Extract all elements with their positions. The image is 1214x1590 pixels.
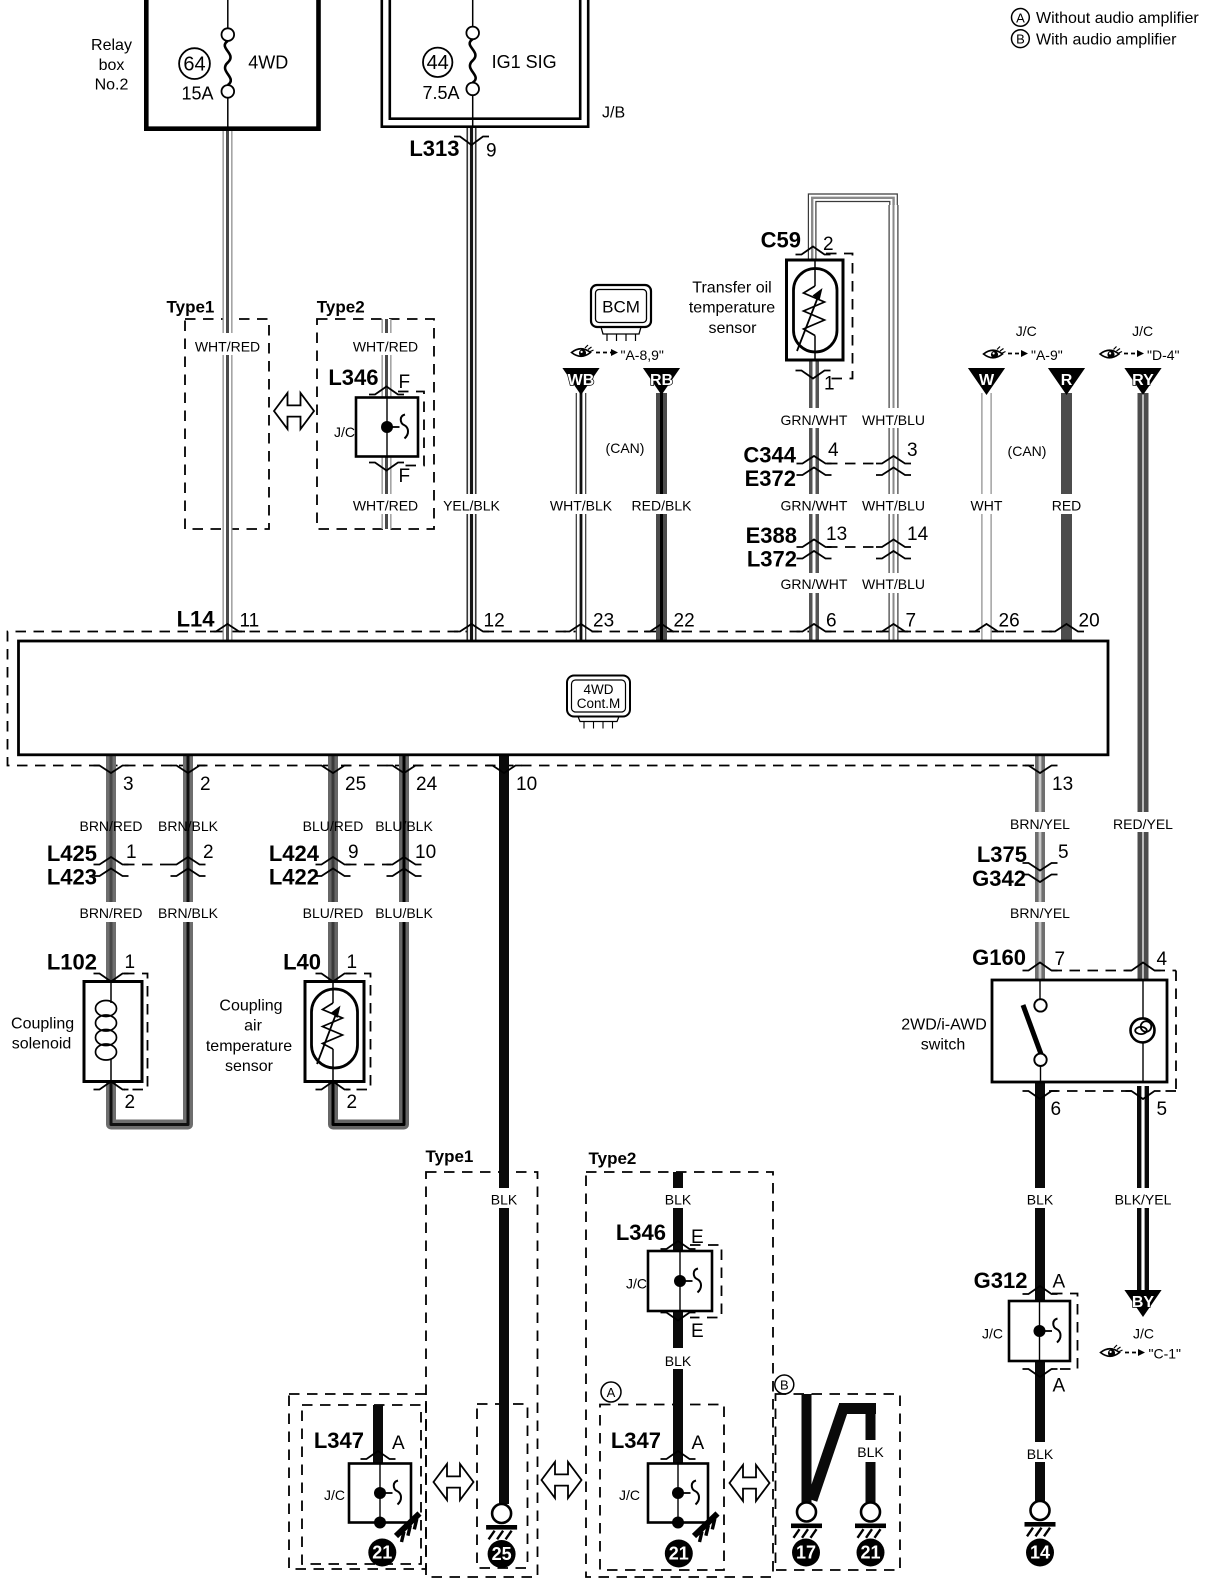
option B circle <box>775 1375 794 1394</box>
connector Type1 option dashed box (WHT/RED) <box>185 319 269 529</box>
module pin 23 <box>564 624 599 632</box>
module pin 12 <box>454 624 489 632</box>
svg-text:L102: L102 <box>47 950 97 975</box>
transfer oil temperature sensor C59 box <box>787 260 844 360</box>
svg-text:2: 2 <box>200 774 211 795</box>
svg-text:(CAN): (CAN) <box>606 440 645 456</box>
svg-text:With audio amplifier: With audio amplifier <box>1036 31 1177 48</box>
svg-text:25: 25 <box>492 1544 512 1564</box>
svg-text:L347: L347 <box>314 1428 364 1453</box>
svg-text:RED: RED <box>1052 498 1082 514</box>
svg-text:4: 4 <box>1157 949 1168 970</box>
L424/L422 chevrons pin 9 <box>316 857 351 865</box>
ground 25 <box>492 1504 511 1523</box>
svg-text:9: 9 <box>348 842 359 863</box>
svg-text:6: 6 <box>1051 1099 1062 1120</box>
svg-text:"D-4": "D-4" <box>1147 347 1180 363</box>
svg-text:solenoid: solenoid <box>12 1036 72 1053</box>
connector R triangle <box>1048 368 1085 395</box>
fuse 64 15A 4WD <box>227 0 229 28</box>
BCM module icon <box>591 285 651 327</box>
svg-text:Type2: Type2 <box>317 298 365 317</box>
connector L347 dashed box (option A) <box>600 1405 724 1571</box>
svg-text:BRN/YEL: BRN/YEL <box>1010 905 1070 921</box>
junction connector L347 (left) <box>349 1464 411 1523</box>
wire WHT/RED stubs in Type2 option <box>382 319 392 529</box>
ground option B dashed box <box>776 1394 901 1570</box>
connector RY triangle <box>1124 368 1161 395</box>
junction connector L346 (E) <box>648 1251 712 1311</box>
L346 pin F top <box>369 387 404 395</box>
svg-text:Transfer oil: Transfer oil <box>692 280 771 297</box>
svg-text:WHT/RED: WHT/RED <box>353 498 418 514</box>
svg-text:20: 20 <box>1079 611 1100 632</box>
svg-text:4WD: 4WD <box>584 682 614 697</box>
svg-text:21: 21 <box>860 1543 880 1563</box>
L40 pin 1 <box>316 974 351 982</box>
svg-text:4: 4 <box>828 440 839 461</box>
svg-text:L313: L313 <box>409 136 459 161</box>
connector C59 dashed boundary <box>826 254 853 379</box>
wire BLK/YEL G160 pin 5 to BY <box>1137 1086 1149 1291</box>
svg-text:No.2: No.2 <box>95 77 129 94</box>
J/C eye reference to A-9 <box>984 350 1003 358</box>
svg-text:J/C: J/C <box>1133 1326 1154 1342</box>
wire RED/BLK from RB to pin 22 <box>656 393 667 641</box>
svg-text:A: A <box>392 1433 405 1454</box>
double arrow A-B <box>730 1465 770 1501</box>
svg-text:23: 23 <box>593 611 614 632</box>
module pin 2 <box>171 766 206 774</box>
svg-text:1: 1 <box>824 374 835 395</box>
junction connector G312 <box>1009 1301 1070 1361</box>
svg-text:C59: C59 <box>761 228 801 253</box>
wire WHT/RED from fuse 64 to pin 11 <box>223 131 233 641</box>
module pin 25 <box>316 766 351 774</box>
wire WHT from W to pin 26 <box>981 393 991 641</box>
svg-text:1: 1 <box>126 842 137 863</box>
svg-text:sensor: sensor <box>225 1058 274 1075</box>
svg-text:BCM: BCM <box>602 298 640 317</box>
svg-text:Coupling: Coupling <box>11 1015 74 1032</box>
svg-text:temperature: temperature <box>689 300 775 317</box>
connector W triangle <box>968 368 1005 395</box>
svg-text:BLK: BLK <box>665 1192 692 1208</box>
module pin 10 <box>487 766 522 774</box>
svg-text:15A: 15A <box>181 84 213 104</box>
L347 ground hatch (left) <box>396 1514 420 1537</box>
ground 17 <box>797 1503 816 1522</box>
L424/L422 chevrons pin 10 <box>387 857 422 865</box>
G160 pin 5 <box>1126 1091 1161 1099</box>
E388/L372 chevrons pin 14 <box>876 540 911 548</box>
module pin 7 <box>876 624 911 632</box>
svg-text:13: 13 <box>826 524 847 545</box>
svg-text:A: A <box>692 1433 705 1454</box>
svg-text:13: 13 <box>1052 774 1073 795</box>
svg-text:E: E <box>691 1227 704 1248</box>
wire BLU/BLK pin 24 to L40 return <box>399 756 409 1120</box>
svg-text:L422: L422 <box>269 865 319 890</box>
svg-text:temperature: temperature <box>206 1038 292 1055</box>
fuse 44 7.5A IG1 SIG <box>472 0 474 27</box>
wire WHT/BLU loop from C59 pin 2 <box>808 194 897 259</box>
svg-text:L423: L423 <box>47 865 97 890</box>
module pin 3 <box>94 766 129 774</box>
connector G160 dashed boundary <box>1052 970 1132 972</box>
module pin 22 <box>644 624 679 632</box>
4WD Cont.M icon <box>567 676 630 717</box>
C59 pin 1 <box>796 371 831 379</box>
option A circle <box>601 1382 621 1402</box>
svg-text:L347: L347 <box>611 1428 661 1453</box>
svg-text:J/C: J/C <box>1016 323 1037 339</box>
junction connector L346 (E) dashed boundary <box>690 1245 722 1318</box>
svg-text:RED/YEL: RED/YEL <box>1113 816 1173 832</box>
svg-text:3: 3 <box>907 440 918 461</box>
svg-text:7.5A: 7.5A <box>422 83 459 103</box>
svg-text:G342: G342 <box>972 866 1026 891</box>
svg-text:L346: L346 <box>328 365 378 390</box>
C59 pin 2 <box>796 247 831 255</box>
svg-text:switch: switch <box>921 1037 965 1054</box>
svg-text:64: 64 <box>183 54 205 76</box>
connector WB triangle <box>562 368 599 395</box>
svg-text:Type1: Type1 <box>167 298 215 317</box>
svg-text:1: 1 <box>125 952 136 973</box>
svg-text:BLU/BLK: BLU/BLK <box>375 818 433 834</box>
junction block J/B outline <box>382 0 588 127</box>
wire WHT/BLU column to pin 7 <box>889 205 899 641</box>
double arrow between Type1 and Type2 <box>274 393 314 429</box>
ground 17 badge <box>792 1539 820 1567</box>
svg-text:L40: L40 <box>283 950 321 975</box>
wire BRN/RED pin 3 to L102 <box>106 756 116 982</box>
L425/L423 pin link dashed line <box>124 864 175 866</box>
svg-text:E372: E372 <box>745 466 796 491</box>
svg-text:L375: L375 <box>977 842 1027 867</box>
svg-text:14: 14 <box>907 524 929 545</box>
L346 pin E top <box>661 1241 696 1249</box>
svg-text:J/B: J/B <box>602 105 625 122</box>
ground 21 (option B) <box>861 1503 880 1522</box>
connector Type2 option dashed box (L346) <box>317 319 434 529</box>
ground 25 badge <box>488 1540 516 1568</box>
svg-text:BLU/BLK: BLU/BLK <box>375 905 433 921</box>
ground 14 badge <box>1026 1539 1054 1567</box>
relay box No.2 outline <box>146 0 318 129</box>
svg-text:WHT/BLU: WHT/BLU <box>862 576 925 592</box>
svg-text:L14: L14 <box>177 607 216 632</box>
legend B with audio amplifier <box>1012 30 1030 48</box>
svg-text:22: 22 <box>674 611 695 632</box>
connector BY triangle <box>1124 1290 1161 1317</box>
svg-text:7: 7 <box>1055 949 1066 970</box>
wire GRN/WHT from C59 pin 1 to pin 6 <box>809 360 819 641</box>
svg-text:Type1: Type1 <box>426 1147 474 1166</box>
svg-text:BRN/BLK: BRN/BLK <box>158 818 219 834</box>
svg-text:2: 2 <box>823 234 834 255</box>
connector L40 dashed boundary <box>346 974 371 1090</box>
svg-text:BLK: BLK <box>1027 1192 1054 1208</box>
BCM eye reference to A-8,9 <box>572 349 591 357</box>
svg-text:2: 2 <box>203 842 214 863</box>
ground 21 badge (option A) <box>665 1540 693 1568</box>
svg-text:25: 25 <box>345 774 366 795</box>
svg-text:BLK: BLK <box>491 1192 518 1208</box>
coupling solenoid L102 box <box>84 982 142 1082</box>
svg-text:IG1 SIG: IG1 SIG <box>492 52 557 72</box>
wire BRN/BLK pin 2 to L102 return <box>183 756 193 1120</box>
svg-text:A: A <box>1053 1272 1066 1293</box>
svg-text:E: E <box>691 1321 704 1342</box>
wire RED/YEL from RY to G160 pin 4 <box>1138 393 1149 981</box>
wire BLU/RED pin 25 to L40 <box>328 756 338 982</box>
L425/L423 chevrons pin 1 <box>94 857 129 865</box>
G312 pin A top <box>1023 1286 1058 1294</box>
L346 pin F bottom <box>369 463 404 471</box>
svg-text:sensor: sensor <box>708 320 757 337</box>
L424/L422 pin link dashed line <box>346 864 391 866</box>
svg-text:4WD: 4WD <box>248 53 288 73</box>
svg-text:"A-8,9": "A-8,9" <box>621 347 664 363</box>
E388/L372 chevrons pin 13 <box>797 540 832 548</box>
svg-text:RED/BLK: RED/BLK <box>632 498 693 514</box>
junction connector L347 (option A) <box>648 1464 708 1523</box>
2WD/i-AWD switch box <box>992 980 1167 1082</box>
wire BLU/BLK return U from L40 pin 2 <box>333 1082 404 1125</box>
svg-text:1: 1 <box>347 952 358 973</box>
svg-text:BRN/YEL: BRN/YEL <box>1010 816 1070 832</box>
ground option Type1 dashed box <box>426 1172 538 1577</box>
svg-text:11: 11 <box>240 611 260 632</box>
svg-text:7: 7 <box>906 611 917 632</box>
svg-text:WHT: WHT <box>971 498 1003 514</box>
module pin 6 <box>797 624 832 632</box>
ground option left outer dashed box <box>289 1394 426 1569</box>
svg-text:17: 17 <box>796 1543 816 1563</box>
L346 pin E bottom <box>661 1313 696 1321</box>
connector RB triangle <box>643 368 680 395</box>
svg-text:WHT/BLU: WHT/BLU <box>862 412 925 428</box>
svg-text:C344: C344 <box>743 443 796 468</box>
G160 pin 4 <box>1126 963 1161 971</box>
L347 pin A (option A) <box>661 1451 696 1459</box>
wire BLK G160 pin 6 to ground 14 <box>1035 1082 1045 1501</box>
svg-text:box: box <box>99 57 125 74</box>
svg-text:F: F <box>399 466 411 487</box>
connector L102 dashed boundary <box>124 974 148 1090</box>
svg-text:G160: G160 <box>972 945 1026 970</box>
svg-text:L424: L424 <box>269 841 320 866</box>
svg-text:5: 5 <box>1058 842 1069 863</box>
L375/G342 chevrons pin 5 <box>1023 863 1058 871</box>
module pin 20 <box>1049 624 1084 632</box>
svg-text:10: 10 <box>415 842 436 863</box>
svg-text:Coupling: Coupling <box>219 997 282 1014</box>
G160 pin 7 <box>1023 963 1058 971</box>
svg-text:YEL/BLK: YEL/BLK <box>443 498 500 514</box>
svg-text:A: A <box>607 1385 616 1400</box>
ground option Type2 dashed box <box>586 1172 773 1577</box>
L102 pin 2 <box>94 1082 129 1090</box>
legend A without audio amplifier <box>1012 9 1030 27</box>
svg-text:RB: RB <box>650 372 673 389</box>
svg-text:24: 24 <box>416 774 438 795</box>
svg-text:44: 44 <box>427 52 449 74</box>
svg-text:BLK: BLK <box>857 1444 884 1460</box>
L347 pin A (left) <box>361 1451 396 1459</box>
svg-text:10: 10 <box>516 774 537 795</box>
wire BLK stub to L347 (left) <box>373 1405 383 1464</box>
module pin 24 <box>387 766 422 774</box>
svg-text:5: 5 <box>1157 1099 1168 1120</box>
svg-text:J/C: J/C <box>982 1326 1003 1342</box>
svg-text:2: 2 <box>125 1092 136 1113</box>
svg-text:21: 21 <box>669 1544 689 1564</box>
svg-text:BY: BY <box>1132 1294 1155 1311</box>
svg-text:"A-9": "A-9" <box>1031 347 1063 363</box>
wire BRN/YEL pin 13 to G160 pin 7 <box>1035 756 1045 981</box>
junction connector L346 dashed boundary <box>398 392 424 466</box>
wire BLK option B diagonal <box>812 1406 844 1500</box>
svg-text:G312: G312 <box>974 1268 1028 1293</box>
svg-text:J/C: J/C <box>324 1487 345 1503</box>
svg-text:Without audio amplifier: Without audio amplifier <box>1036 10 1199 27</box>
wire BLK pin 10 to ground 25 <box>499 756 509 1504</box>
svg-text:B: B <box>780 1378 789 1393</box>
svg-text:WHT/RED: WHT/RED <box>353 339 418 355</box>
svg-text:J/C: J/C <box>334 424 355 440</box>
svg-text:L346: L346 <box>616 1220 666 1245</box>
svg-text:A: A <box>1016 10 1025 25</box>
svg-text:E388: E388 <box>746 523 797 548</box>
svg-text:2WD/i-AWD: 2WD/i-AWD <box>901 1017 987 1034</box>
junction connector G312 dashed boundary <box>1052 1294 1078 1370</box>
svg-text:3: 3 <box>123 774 134 795</box>
svg-text:12: 12 <box>484 611 505 632</box>
wire BRN/BLK return U from L102 pin 2 <box>111 1082 188 1125</box>
svg-text:BLK/YEL: BLK/YEL <box>1115 1192 1172 1208</box>
svg-text:21: 21 <box>372 1543 392 1563</box>
svg-text:26: 26 <box>999 611 1020 632</box>
svg-text:GRN/WHT: GRN/WHT <box>781 498 848 514</box>
svg-text:L425: L425 <box>47 841 97 866</box>
wire BLK option B right to ground 21 <box>866 1409 876 1503</box>
svg-text:BRN/BLK: BRN/BLK <box>158 905 219 921</box>
wire BLK option B left to ground 17 <box>802 1394 812 1503</box>
wire BLK stub Type2 to L346 E <box>673 1172 683 1251</box>
svg-text:BLK: BLK <box>665 1353 692 1369</box>
connector L347 dashed box (left) <box>302 1405 421 1564</box>
svg-text:J/C: J/C <box>1132 323 1153 339</box>
module pin 26 <box>969 624 1004 632</box>
svg-text:A: A <box>1053 1376 1066 1397</box>
wire BLK option B top bar <box>839 1403 876 1414</box>
L40 pin 2 <box>316 1082 351 1090</box>
svg-text:R: R <box>1061 372 1073 389</box>
svg-text:GRN/WHT: GRN/WHT <box>781 412 848 428</box>
svg-text:J/C: J/C <box>626 1276 647 1292</box>
svg-text:BLK: BLK <box>1027 1446 1054 1462</box>
svg-text:2: 2 <box>347 1092 358 1113</box>
svg-text:W: W <box>979 372 995 389</box>
wire YEL/BLK from J/B to pin 12 <box>467 127 477 641</box>
C344/E372 pin link dashed line <box>827 463 880 465</box>
svg-text:WHT/BLK: WHT/BLK <box>550 498 613 514</box>
junction connector L346 (J/C) <box>356 398 418 457</box>
svg-text:J/C: J/C <box>619 1487 640 1503</box>
svg-text:BLU/RED: BLU/RED <box>303 818 364 834</box>
wire RED from R to pin 20 <box>1061 393 1072 641</box>
svg-text:"C-1": "C-1" <box>1149 1346 1182 1362</box>
svg-text:6: 6 <box>826 611 837 632</box>
svg-text:9: 9 <box>486 141 497 162</box>
svg-text:WHT/RED: WHT/RED <box>195 339 260 355</box>
svg-text:GRN/WHT: GRN/WHT <box>781 576 848 592</box>
wire BLK L346 E to L347 option A <box>673 1311 683 1464</box>
J/C eye reference to C-1 <box>1101 1349 1120 1357</box>
svg-text:L372: L372 <box>747 547 797 572</box>
svg-text:air: air <box>244 1018 262 1035</box>
4WD control module dashed connector boundary L14 <box>8 632 1053 766</box>
J/C eye reference to D-4 <box>1100 350 1119 358</box>
C344/E372 chevrons pin 4 <box>797 456 832 464</box>
module pin 13 <box>1023 766 1058 774</box>
svg-text:14: 14 <box>1030 1543 1050 1563</box>
C344/E372 chevrons pin 3 <box>876 456 911 464</box>
coupling air temperature sensor L40 box <box>305 982 364 1082</box>
svg-text:B: B <box>1016 32 1025 47</box>
double arrow left-Type1 <box>434 1464 474 1500</box>
module pin 11 <box>210 624 245 632</box>
double arrow Type1-Type2 <box>542 1462 582 1498</box>
svg-text:BRN/RED: BRN/RED <box>79 818 142 834</box>
ground 21 badge (left) <box>368 1539 396 1567</box>
L425/L423 chevrons pin 2 <box>171 857 206 865</box>
svg-text:Cont.M: Cont.M <box>577 696 621 711</box>
ground 21 badge (option B) <box>857 1539 885 1567</box>
E388/L372 pin link dashed line <box>827 546 880 548</box>
svg-text:F: F <box>399 372 411 393</box>
svg-text:WB: WB <box>568 372 595 389</box>
ground 14 <box>1031 1501 1050 1520</box>
svg-text:BRN/RED: BRN/RED <box>79 905 142 921</box>
ground 25 dashed box <box>477 1404 528 1568</box>
wire WHT/BLK from WB to pin 23 <box>576 393 587 641</box>
4WD control module box <box>19 641 1109 755</box>
svg-text:(CAN): (CAN) <box>1008 443 1047 459</box>
L347 ground hatch (option A) <box>694 1514 718 1537</box>
svg-text:Type2: Type2 <box>589 1149 637 1168</box>
L102 pin 1 <box>94 974 129 982</box>
svg-text:BLU/RED: BLU/RED <box>303 905 364 921</box>
G312 pin A bottom <box>1023 1369 1058 1377</box>
G160 pin 6 <box>1023 1091 1058 1099</box>
svg-text:WHT/BLU: WHT/BLU <box>862 498 925 514</box>
svg-text:RY: RY <box>1132 372 1154 389</box>
svg-text:Relay: Relay <box>91 37 132 54</box>
